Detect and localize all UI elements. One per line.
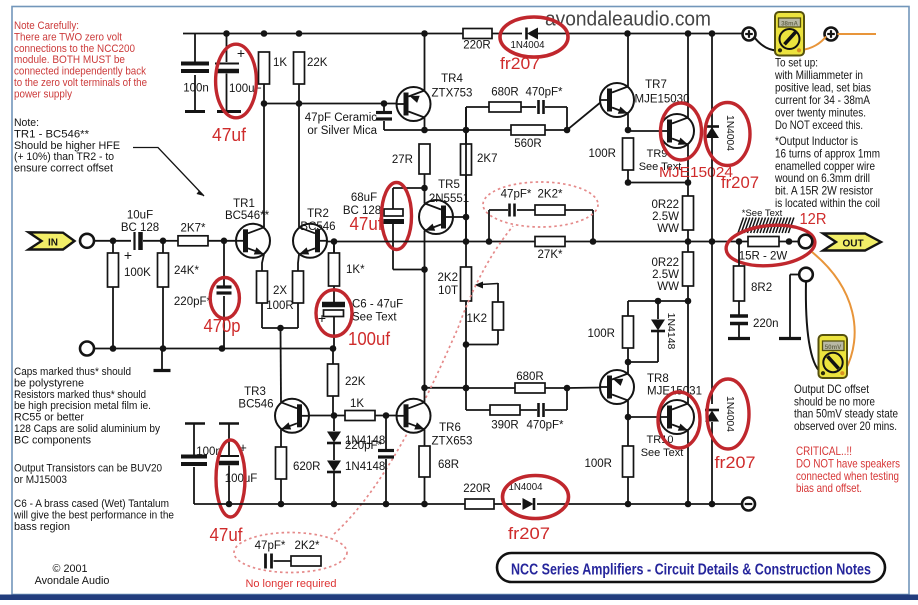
svg-text:47uf: 47uf xyxy=(212,125,247,145)
svg-text:100uF: 100uF xyxy=(225,473,258,485)
svg-text:220n: 220n xyxy=(753,318,779,330)
svg-text:47pF*: 47pF* xyxy=(255,540,286,552)
svg-text:bias and offset.: bias and offset. xyxy=(796,482,862,495)
svg-text:27R: 27R xyxy=(392,154,413,166)
svg-text:100R: 100R xyxy=(589,148,617,160)
svg-text:will give the best performance: will give the best performance in the xyxy=(13,510,174,522)
svg-text:220R: 220R xyxy=(463,483,491,495)
svg-text:fr207: fr207 xyxy=(721,173,759,192)
svg-text:See Text: See Text xyxy=(352,312,397,324)
svg-text:1N4004: 1N4004 xyxy=(724,115,735,152)
svg-text:RC55 or better: RC55 or better xyxy=(14,412,84,424)
svg-text:1K: 1K xyxy=(350,398,364,410)
svg-text:There are TWO zero volt: There are TWO zero volt xyxy=(14,31,123,43)
svg-text:BC components: BC components xyxy=(14,434,91,446)
svg-text:TR1: TR1 xyxy=(233,198,255,210)
svg-text:bass region: bass region xyxy=(14,521,70,533)
svg-text:27K*: 27K* xyxy=(538,249,563,261)
svg-text:BC546: BC546 xyxy=(238,399,273,411)
svg-text:2K2*: 2K2* xyxy=(295,540,320,552)
svg-text:TR1 - BC546**: TR1 - BC546** xyxy=(14,128,90,140)
svg-text:TR2: TR2 xyxy=(307,208,329,220)
svg-text:1N4004: 1N4004 xyxy=(511,39,545,51)
svg-text:be high precision metal film i: be high precision metal film ie. xyxy=(14,400,151,412)
svg-text:24K*: 24K* xyxy=(174,265,199,277)
svg-text:enamelled copper wire: enamelled copper wire xyxy=(775,160,875,173)
svg-text:bit. A 15R 2W resistor: bit. A 15R 2W resistor xyxy=(775,185,873,198)
svg-text:2X: 2X xyxy=(273,285,287,297)
svg-text:BC546: BC546 xyxy=(300,221,335,233)
svg-text:connections to the NCC200: connections to the NCC200 xyxy=(14,43,135,55)
svg-text:module. BOTH MUST be: module. BOTH MUST be xyxy=(14,54,125,66)
svg-text:© 2001: © 2001 xyxy=(53,563,88,575)
svg-text:Note Carefully:: Note Carefully: xyxy=(14,20,79,32)
svg-text:positive lead, set bias: positive lead, set bias xyxy=(775,82,871,95)
svg-text:620R: 620R xyxy=(293,461,321,473)
svg-text:220pF*: 220pF* xyxy=(345,440,383,452)
svg-text:10uF: 10uF xyxy=(127,210,153,222)
svg-text:68uF: 68uF xyxy=(351,192,377,204)
svg-text:BC546**: BC546** xyxy=(225,210,270,222)
svg-text:CRITICAL..!!: CRITICAL..!! xyxy=(796,445,852,458)
svg-text:2K2: 2K2 xyxy=(438,272,458,284)
svg-text:than 50mV steady state: than 50mV steady state xyxy=(794,408,898,421)
svg-text:2N5551: 2N5551 xyxy=(429,193,469,205)
svg-text:BC 128: BC 128 xyxy=(121,222,159,234)
svg-text:To set up:: To set up: xyxy=(775,57,818,70)
svg-text:560R: 560R xyxy=(514,138,542,150)
svg-text:with Milliammeter in: with Milliammeter in xyxy=(774,69,863,82)
svg-text:ZTX753: ZTX753 xyxy=(432,88,473,100)
svg-text:ensure correct offset: ensure correct offset xyxy=(14,163,114,175)
svg-text:IN: IN xyxy=(48,238,58,249)
svg-text:is located within the coil: is located within the coil xyxy=(775,197,880,210)
svg-text:TR8: TR8 xyxy=(647,373,669,385)
svg-text:100R: 100R xyxy=(585,458,613,470)
svg-text:470pF*: 470pF* xyxy=(526,420,564,432)
svg-text:C6 - 47uF: C6 - 47uF xyxy=(352,299,403,311)
svg-text:2.5W: 2.5W xyxy=(652,269,679,281)
svg-text:wound on 6.3mm drill: wound on 6.3mm drill xyxy=(774,172,870,185)
svg-text:1N4004: 1N4004 xyxy=(724,396,735,433)
svg-text:fr207: fr207 xyxy=(508,524,550,543)
svg-text:Should be higher HFE: Should be higher HFE xyxy=(14,140,120,152)
svg-text:Output DC offset: Output DC offset xyxy=(794,383,870,396)
svg-text:current for 34 - 38mA: current for 34 - 38mA xyxy=(775,94,870,107)
svg-text:Resistors marked thus* should: Resistors marked thus* should xyxy=(14,389,146,401)
svg-text:1N4148: 1N4148 xyxy=(665,313,677,350)
svg-text:TR4: TR4 xyxy=(441,73,463,85)
svg-text:avondaleaudio.com: avondaleaudio.com xyxy=(545,8,711,31)
svg-text:2K7: 2K7 xyxy=(477,153,497,165)
svg-text:2K2*: 2K2* xyxy=(538,189,563,201)
svg-text:100R: 100R xyxy=(266,300,294,312)
svg-text:680R: 680R xyxy=(491,87,519,99)
svg-text:should be no more: should be no more xyxy=(794,395,875,408)
svg-text:38mA: 38mA xyxy=(781,20,798,27)
svg-text:10T: 10T xyxy=(438,285,458,297)
svg-text:WW: WW xyxy=(657,281,679,293)
svg-text:be polystyrene: be polystyrene xyxy=(14,377,84,389)
svg-text:Caps marked thus* should: Caps marked thus* should xyxy=(14,366,131,378)
svg-text:12R: 12R xyxy=(800,211,827,228)
svg-text:390R: 390R xyxy=(491,420,519,432)
svg-text:47uf: 47uf xyxy=(210,525,244,545)
svg-text:TR5: TR5 xyxy=(438,179,460,191)
svg-text:NCC Series Amplifiers - Circui: NCC Series Amplifiers - Circuit Details … xyxy=(511,562,871,579)
svg-text:DO NOT have speakers: DO NOT have speakers xyxy=(796,457,900,470)
svg-text:Avondale Audio: Avondale Audio xyxy=(35,575,110,587)
svg-text:22K: 22K xyxy=(307,57,328,69)
svg-text:power supply: power supply xyxy=(14,88,72,100)
svg-text:connected when testing: connected when testing xyxy=(796,470,899,483)
svg-text:+: + xyxy=(124,247,132,263)
svg-text:over twenty minutes.: over twenty minutes. xyxy=(775,107,866,120)
svg-text:TR7: TR7 xyxy=(645,79,667,91)
svg-text:Do NOT exceed this.: Do NOT exceed this. xyxy=(775,119,863,132)
svg-text:Note:: Note: xyxy=(14,117,39,129)
svg-text:470p: 470p xyxy=(204,316,241,336)
svg-text:0R22: 0R22 xyxy=(652,199,680,211)
svg-text:47pF Ceramic: 47pF Ceramic xyxy=(305,112,377,124)
svg-text:1K*: 1K* xyxy=(346,264,365,276)
svg-text:or MJ15003: or MJ15003 xyxy=(14,474,67,486)
svg-text:47uf: 47uf xyxy=(350,214,384,234)
svg-text:OUT: OUT xyxy=(842,239,863,250)
svg-text:47pF*: 47pF* xyxy=(501,189,532,201)
svg-text:TR3: TR3 xyxy=(244,386,266,398)
svg-text:100n: 100n xyxy=(183,83,209,95)
svg-text:observed over 20 mins.: observed over 20 mins. xyxy=(794,420,897,433)
svg-text:680R: 680R xyxy=(516,371,544,383)
svg-text:100uf: 100uf xyxy=(348,329,391,349)
svg-text:470pF*: 470pF* xyxy=(525,87,563,99)
svg-text:2.5W: 2.5W xyxy=(652,211,679,223)
svg-text:50mV: 50mV xyxy=(825,344,842,351)
svg-text:WW: WW xyxy=(657,223,679,235)
svg-text:68R: 68R xyxy=(438,459,459,471)
svg-text:1K2: 1K2 xyxy=(467,313,487,325)
svg-text:connected independently back: connected independently back xyxy=(14,66,146,78)
svg-text:Output Transistors can be BUV2: Output Transistors can be BUV20 xyxy=(14,463,162,475)
svg-text:0R22: 0R22 xyxy=(652,257,680,269)
svg-text:128 Caps are solid aluminium b: 128 Caps are solid aluminium by xyxy=(14,423,160,435)
svg-text:C6 - A brass cased (Wet) Tanta: C6 - A brass cased (Wet) Tantalum xyxy=(14,498,169,510)
svg-text:fr207: fr207 xyxy=(715,453,756,472)
svg-text:1N4148: 1N4148 xyxy=(345,461,385,473)
svg-text:1K: 1K xyxy=(273,57,287,69)
svg-text:8R2: 8R2 xyxy=(751,282,772,294)
svg-text:TR6: TR6 xyxy=(439,422,461,434)
svg-text:*See Text: *See Text xyxy=(742,208,783,219)
svg-text:ZTX653: ZTX653 xyxy=(432,436,473,448)
svg-text:220R: 220R xyxy=(463,40,491,52)
svg-text:100R: 100R xyxy=(588,328,616,340)
svg-text:*Output Inductor is: *Output Inductor is xyxy=(775,135,858,148)
svg-text:2K7*: 2K7* xyxy=(181,223,206,235)
svg-text:(+ 10%) than TR2 - to: (+ 10%) than TR2 - to xyxy=(14,151,114,163)
svg-text:or Silver Mica: or Silver Mica xyxy=(307,125,377,137)
svg-text:16 turns of approx 1mm: 16 turns of approx 1mm xyxy=(775,147,880,160)
svg-text:fr207: fr207 xyxy=(500,54,540,73)
svg-text:to the zero volt terminals of: to the zero volt terminals of the xyxy=(14,77,147,89)
svg-text:100K: 100K xyxy=(124,267,151,279)
svg-text:22K: 22K xyxy=(345,376,366,388)
svg-text:No longer required: No longer required xyxy=(245,578,336,590)
svg-text:15R - 2W: 15R - 2W xyxy=(739,251,788,263)
svg-text:220pF*: 220pF* xyxy=(174,296,212,308)
